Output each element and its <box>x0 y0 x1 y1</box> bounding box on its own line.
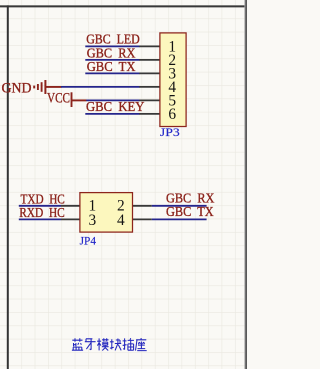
JP4 pin 2 stub <box>132 205 151 207</box>
char 模 <box>97 338 109 350</box>
svg-text:3: 3 <box>89 212 97 229</box>
ground symbol bars <box>34 80 61 94</box>
connector JP4 body <box>80 193 133 233</box>
JP4 pin 3 stub <box>61 218 80 220</box>
svg-text:RXD HC: RXD HC <box>19 205 65 220</box>
svg-text:4: 4 <box>117 212 125 229</box>
wire GBC RX to JP3 pin2 <box>85 59 139 61</box>
JP3 pin 3 stub <box>139 72 160 74</box>
JP3 pin 1 stub <box>139 45 160 47</box>
wire VCC to JP3 pin5 <box>86 99 139 101</box>
wire GBC RX from JP4 pin2 <box>152 205 207 207</box>
wire GND to JP3 pin4 <box>61 86 140 88</box>
svg-text:GBC KEY: GBC KEY <box>86 99 145 114</box>
svg-text:6: 6 <box>168 106 176 123</box>
wire GBC KEY to JP3 pin6 <box>85 113 139 115</box>
connector JP3 body <box>160 33 186 127</box>
wire TXD HC to JP4 pin1 <box>19 205 61 207</box>
char 插 <box>123 338 134 350</box>
sheet border left line <box>7 5 9 369</box>
annotation text 蓝牙模块插座 (hand-drawn strokes) <box>72 338 147 351</box>
svg-text:GBC TX: GBC TX <box>166 204 214 219</box>
char 牙 <box>85 339 96 350</box>
char 蓝 <box>72 338 83 350</box>
JP4 pin 4 stub <box>132 218 151 220</box>
svg-text:GND: GND <box>2 80 32 96</box>
sheet background with grid <box>0 0 247 369</box>
svg-text:JP4: JP4 <box>80 233 96 247</box>
JP3 pin 2 stub <box>139 59 160 61</box>
svg-text:VCC: VCC <box>47 90 70 106</box>
JP3 pin 5 stub <box>139 99 160 101</box>
JP4 pin 1 stub <box>61 205 80 207</box>
wire GBC TX from JP4 pin4 <box>152 218 207 220</box>
svg-text:GBC LED: GBC LED <box>86 31 140 46</box>
wire GBC TX to JP3 pin3 <box>85 72 139 74</box>
JP3 pin 4 stub <box>139 86 160 88</box>
svg-text:JP3: JP3 <box>160 125 180 139</box>
char 座 <box>136 338 147 351</box>
window edge right band <box>244 0 247 369</box>
char 块 <box>110 339 121 351</box>
svg-text:GBC TX: GBC TX <box>87 59 136 74</box>
wire GBC LED to JP3 pin1 <box>85 45 139 47</box>
VCC bar symbol <box>72 92 87 107</box>
JP3 pin 6 stub <box>139 113 160 115</box>
wire RXD HC to JP4 pin3 <box>19 218 61 220</box>
sheet border top line <box>0 5 245 7</box>
